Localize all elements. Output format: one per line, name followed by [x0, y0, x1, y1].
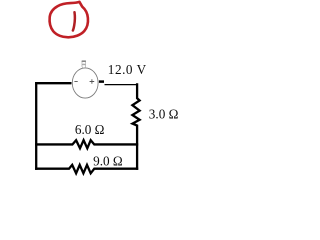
svg-text:6.0 Ω: 6.0 Ω [75, 122, 105, 137]
svg-text:3.0 Ω: 3.0 Ω [149, 107, 179, 122]
svg-text:9.0 Ω: 9.0 Ω [93, 153, 123, 168]
svg-text:12.0 V: 12.0 V [108, 62, 147, 77]
